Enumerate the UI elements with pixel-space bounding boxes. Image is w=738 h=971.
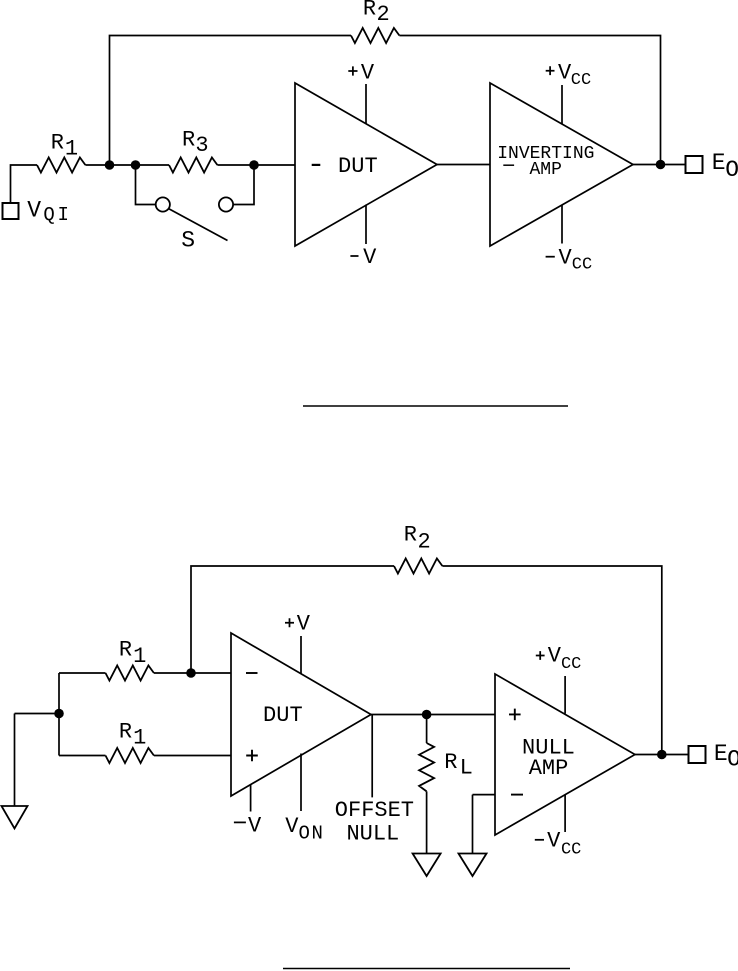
svg-text:R: R [51, 130, 64, 155]
svg-text:AMP: AMP [529, 756, 569, 781]
svg-text:V: V [27, 198, 41, 224]
svg-text:V: V [363, 245, 377, 270]
svg-text:O: O [299, 822, 310, 844]
svg-text:CC: CC [561, 840, 581, 859]
svg-text:E: E [712, 150, 726, 176]
svg-text:AMP: AMP [530, 160, 562, 180]
svg-text:V: V [285, 814, 299, 839]
svg-text:R: R [404, 523, 417, 548]
svg-text:2: 2 [417, 529, 430, 554]
svg-text:DUT: DUT [263, 703, 303, 728]
svg-text:O: O [725, 157, 738, 183]
svg-text:N: N [312, 822, 323, 844]
svg-text:V: V [547, 829, 561, 854]
svg-text:V: V [558, 246, 572, 271]
svg-text:E: E [714, 741, 728, 767]
svg-text:V: V [248, 814, 262, 839]
svg-text:R: R [444, 750, 457, 775]
svg-text:3: 3 [195, 133, 208, 158]
svg-text:V: V [297, 612, 311, 637]
svg-text:CC: CC [572, 256, 592, 275]
svg-text:S: S [181, 227, 195, 253]
svg-text:V: V [361, 60, 375, 85]
svg-text:DUT: DUT [338, 154, 378, 179]
svg-text:1: 1 [133, 725, 146, 750]
svg-text:R: R [119, 638, 132, 663]
svg-text:V: V [548, 644, 562, 669]
svg-text:Q: Q [43, 204, 54, 226]
svg-text:R: R [182, 128, 195, 153]
svg-text:1: 1 [65, 136, 78, 161]
svg-text:NULL: NULL [346, 821, 399, 846]
svg-text:L: L [460, 756, 473, 781]
svg-text:1: 1 [133, 644, 146, 669]
svg-text:CC: CC [561, 655, 581, 674]
svg-text:I: I [58, 204, 69, 226]
svg-text:R: R [363, 0, 376, 21]
svg-text:OFFSET: OFFSET [335, 798, 414, 823]
svg-text:O: O [727, 746, 738, 772]
svg-text:2: 2 [377, 2, 390, 27]
svg-text:R: R [119, 720, 132, 745]
svg-text:CC: CC [571, 71, 591, 90]
